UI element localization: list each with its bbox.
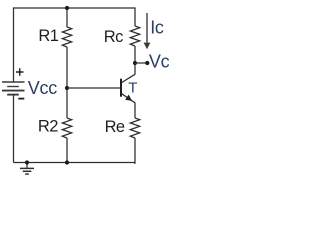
ground	[20, 163, 34, 175]
svg-text:Re: Re	[105, 118, 125, 136]
resistor Rc	[130, 26, 139, 46]
svg-text:Rc: Rc	[104, 28, 123, 46]
wire bottom rail	[14, 162, 136, 164]
svg-text:Ic: Ic	[150, 18, 164, 38]
wire top rail	[14, 7, 136, 9]
svg-text:T: T	[128, 79, 137, 96]
wire right rail: Rc to collector	[134, 46, 136, 75]
base bar	[120, 79, 122, 97]
current arrow Ic	[144, 13, 151, 49]
emitter lead	[122, 94, 135, 103]
wire middle rail: R1 to R2	[66, 47, 68, 118]
resistor Re	[130, 118, 139, 138]
wire Vc stub	[135, 62, 147, 64]
transistor T (NPN)	[121, 74, 135, 103]
wire left rail upper	[13, 7, 15, 82]
wire right rail: Re to bottom	[134, 138, 135, 163]
svg-text:R1: R1	[38, 27, 58, 45]
svg-text:R2: R2	[38, 117, 58, 135]
wire base	[67, 87, 121, 89]
resistor R2	[62, 118, 71, 138]
node top tee	[65, 6, 69, 10]
node ground junction	[25, 160, 29, 164]
svg-text:Vcc: Vcc	[28, 78, 57, 98]
wire right rail: top to Rc	[134, 7, 136, 26]
battery minus sign	[18, 98, 24, 100]
node Vc terminal bullet	[145, 61, 149, 65]
wire middle rail: R2 to bottom	[66, 138, 68, 163]
node Vc junction	[133, 61, 137, 65]
emitter arrowhead	[125, 95, 132, 101]
resistor R1	[62, 27, 71, 47]
battery plus sign	[16, 68, 24, 75]
collector lead	[122, 74, 135, 82]
wire right rail: emitter to Re	[134, 103, 136, 118]
wire left rail lower	[13, 95, 15, 163]
node base tee	[65, 86, 69, 90]
battery Vcc source plates	[2, 82, 25, 95]
node bottom tee	[65, 160, 69, 164]
wire middle rail: top to R1	[66, 8, 68, 27]
svg-text:Vc: Vc	[149, 51, 169, 71]
